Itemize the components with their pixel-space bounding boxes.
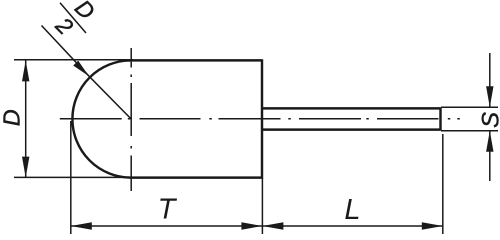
arrowhead S down: [486, 86, 493, 107]
fraction bar of D/2: [60, 3, 86, 33]
arrowhead D down: [22, 157, 29, 178]
svg-text:T: T: [158, 193, 178, 225]
svg-text:D: D: [0, 109, 24, 126]
arrowhead T right: [241, 222, 262, 229]
dimension line D: [25, 60, 27, 177]
extension line: between T and L (face): [261, 178, 263, 234]
extension line: bottom of head (for D): [14, 176, 133, 178]
dimension line S lower: [489, 131, 491, 181]
svg-text:S: S: [478, 112, 500, 128]
svg-text:L: L: [344, 194, 360, 226]
head outline: dome arc + cylinder body: [72, 59, 262, 178]
arrowhead S up: [486, 131, 493, 152]
radius leader line D/2: [42, 26, 90, 77]
arrowhead L left: [262, 222, 283, 229]
arrowhead radius D/2: [73, 61, 89, 77]
dimension line L: [262, 225, 442, 227]
arrowhead T left: [71, 222, 92, 229]
extension line: top of head (for D): [14, 59, 133, 61]
radius leader continuation to center: [89, 76, 131, 119]
shaft outline: [262, 107, 441, 130]
arrowhead D up: [22, 60, 29, 81]
dimension line S upper: [489, 53, 491, 107]
extension line: right end of L: [442, 134, 444, 234]
extension line: shaft bottom (for S): [441, 130, 498, 132]
extension line: left of T: [70, 121, 72, 234]
extension line: shaft top (for S): [441, 106, 498, 108]
arrowhead L right: [422, 222, 443, 229]
dimension line T: [71, 225, 263, 227]
wire: vertical centerline dash segments: [130, 48, 132, 191]
wire: horizontal centerline dash segments: [60, 118, 460, 120]
